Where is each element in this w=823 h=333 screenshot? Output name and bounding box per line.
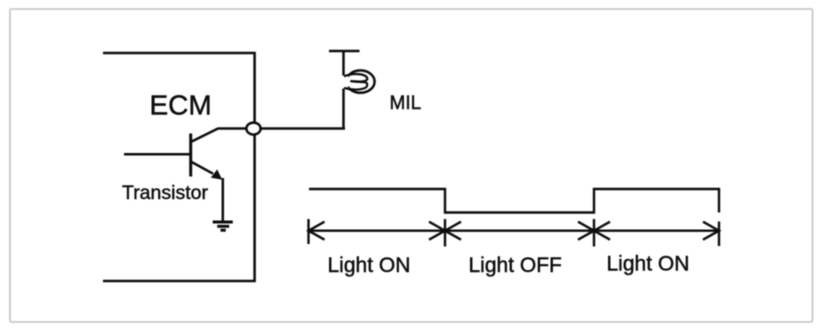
svg-text:ECM: ECM <box>150 89 212 120</box>
svg-text:Transistor: Transistor <box>122 182 208 204</box>
svg-text:Light ON: Light ON <box>328 254 411 277</box>
svg-text:Light OFF: Light OFF <box>469 254 562 277</box>
svg-text:Light ON: Light ON <box>607 253 690 276</box>
svg-text:MIL: MIL <box>390 93 422 114</box>
